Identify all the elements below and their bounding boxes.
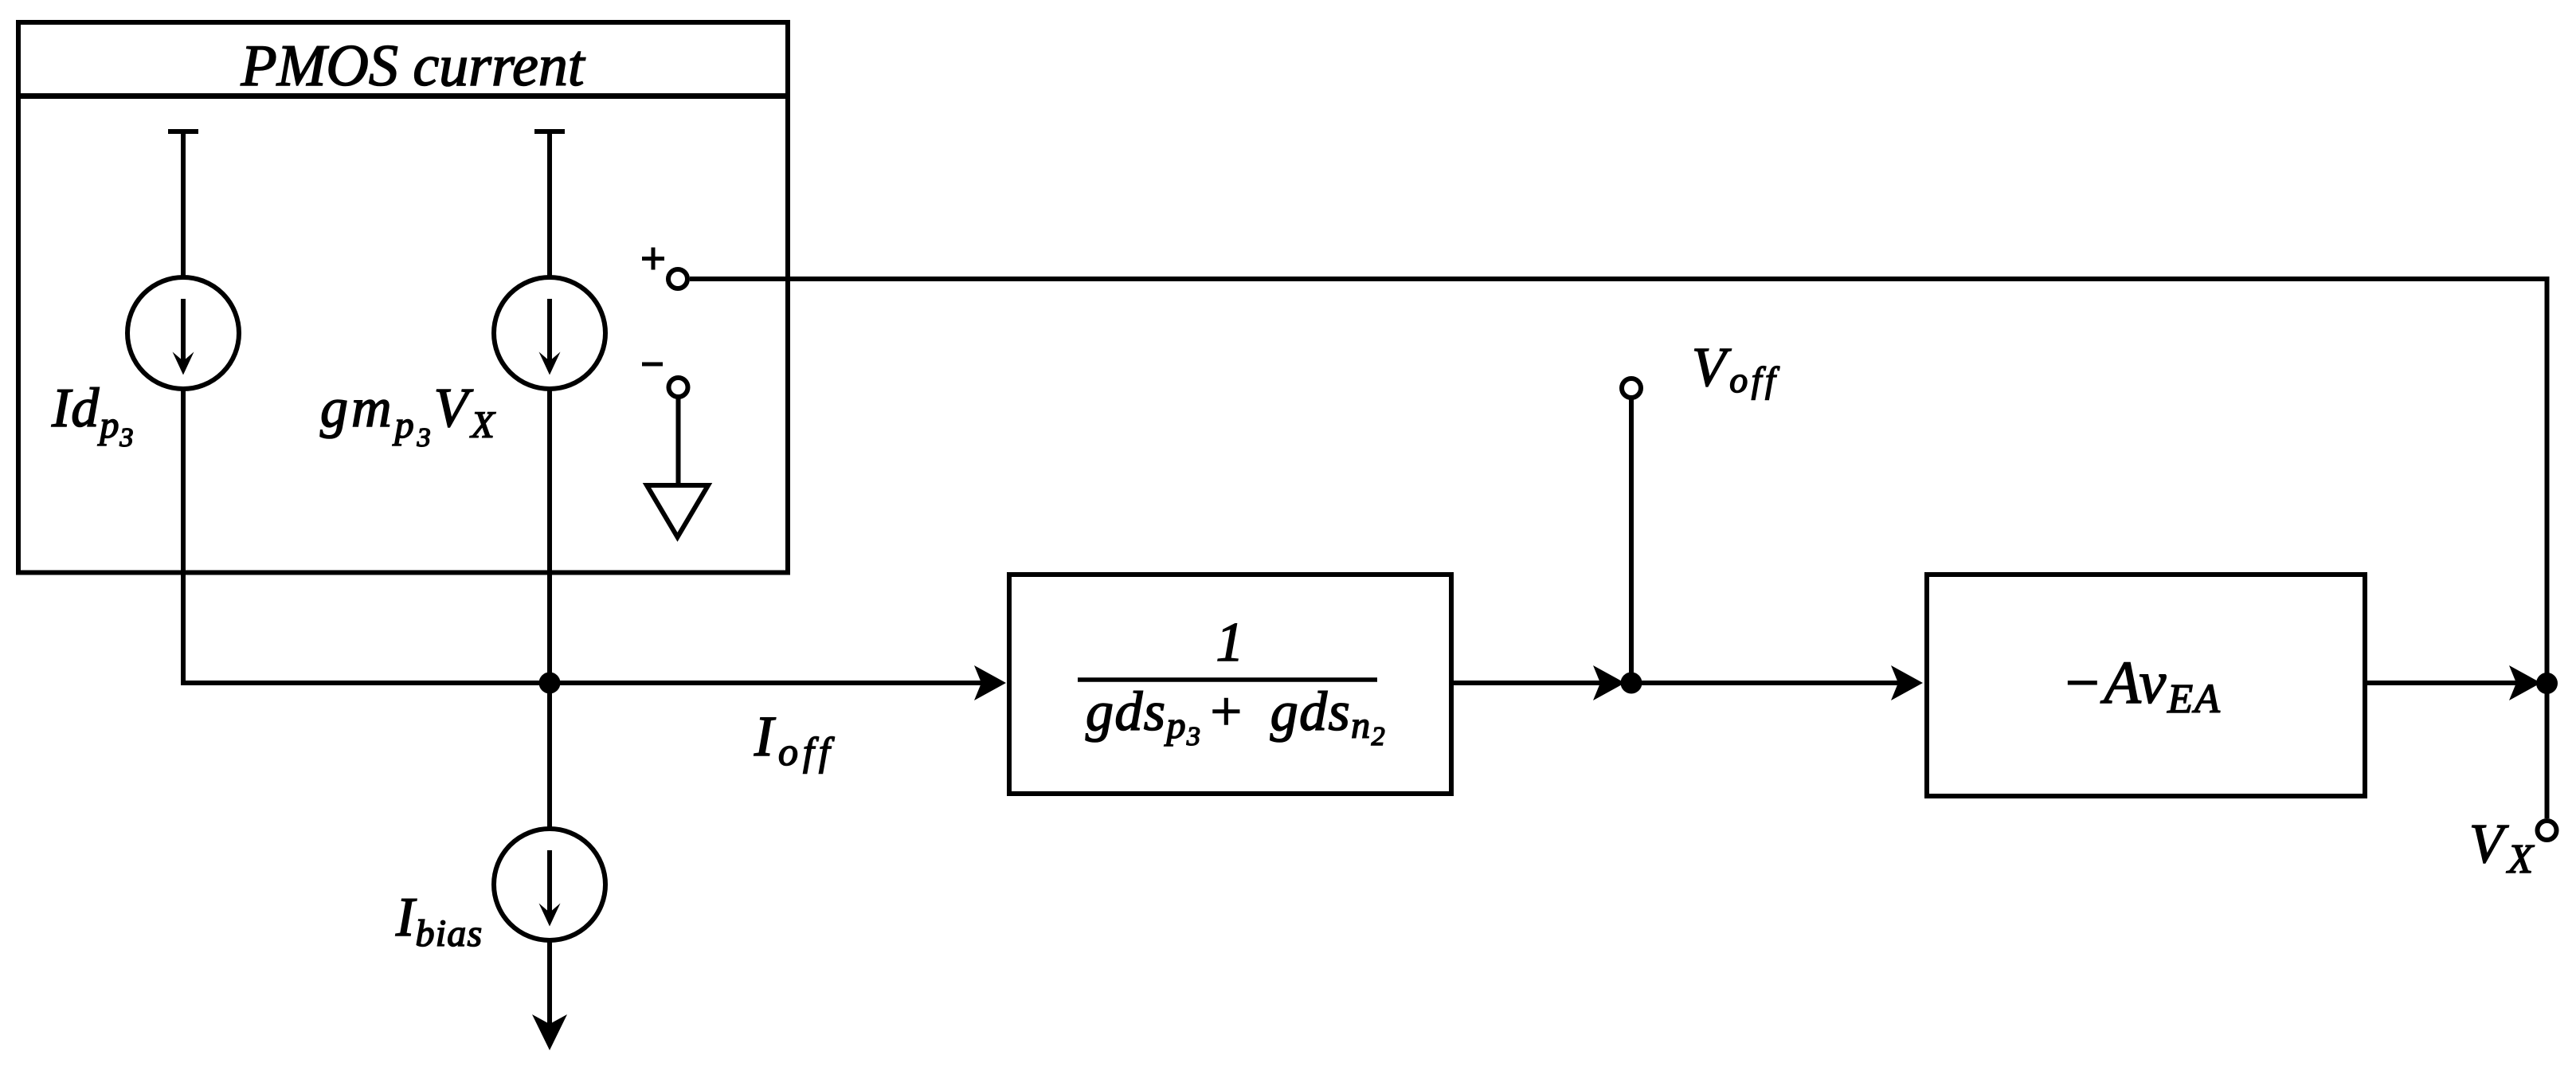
- svg-text:PMOS current: PMOS current: [241, 33, 586, 99]
- svg-text:1: 1: [1216, 612, 1244, 673]
- svg-text:−AvEA: −AvEA: [2061, 649, 2222, 722]
- svg-text:gmp3VX: gmp3VX: [320, 378, 498, 453]
- svg-text:VX: VX: [2469, 814, 2538, 882]
- svg-text:Ibias: Ibias: [395, 887, 483, 955]
- svg-text:gdsp3 + gdsn2: gdsp3 + gdsn2: [1086, 681, 1386, 751]
- svg-text:Ioff: Ioff: [754, 704, 835, 774]
- svg-text:Idp3: Idp3: [51, 378, 134, 453]
- svg-text:Voff: Voff: [1692, 337, 1780, 400]
